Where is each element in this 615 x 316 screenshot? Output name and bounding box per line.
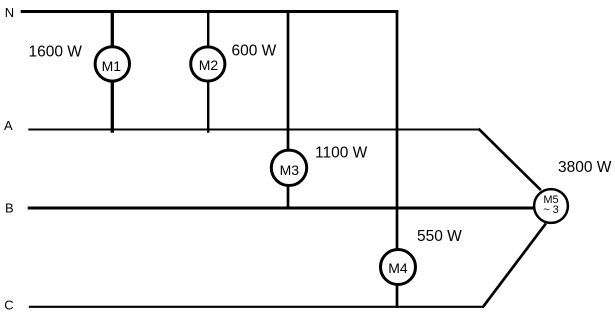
wire M3 drop N-to-B (287, 10, 290, 209)
motor M3 (271, 150, 306, 185)
wire A diagonal to M5 (479, 129, 541, 190)
svg-text:~ 3: ~ 3 (543, 204, 559, 216)
svg-text:A: A (4, 118, 13, 133)
wire M1 drop N-to-A (111, 10, 114, 133)
svg-text:M1: M1 (102, 58, 122, 74)
motor M2 (191, 47, 225, 81)
svg-text:N: N (5, 5, 14, 20)
motor M5 three-phase (534, 189, 568, 223)
svg-text:M4: M4 (388, 260, 408, 276)
wire M2 drop N-to-A (207, 10, 209, 133)
wire M4 drop N-to-C (396, 10, 399, 308)
motor M4 (381, 250, 416, 285)
svg-text:1100 W: 1100 W (315, 145, 368, 162)
wire C diagonal to M5 (483, 224, 546, 308)
svg-text:600 W: 600 W (232, 43, 277, 60)
svg-text:1600 W: 1600 W (29, 44, 83, 61)
svg-text:550 W: 550 W (417, 228, 462, 245)
wire A phase bus (28, 128, 479, 130)
svg-text:M2: M2 (199, 57, 219, 73)
svg-text:3800 W: 3800 W (558, 159, 612, 176)
motor M1 (95, 47, 129, 81)
wire neutral bus N (21, 10, 399, 13)
svg-text:C: C (4, 298, 13, 313)
svg-text:B: B (5, 201, 14, 216)
wire C phase bus (29, 306, 484, 308)
wire B phase bus (28, 207, 534, 210)
svg-text:M3: M3 (280, 162, 300, 178)
